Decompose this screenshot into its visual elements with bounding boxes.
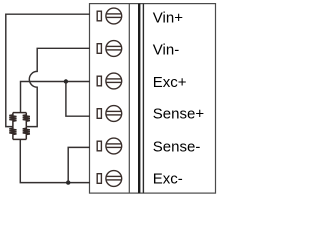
wire Vin- with hop over Exc+ wire : terminal 2 to bridge right-middle node xyxy=(26,48,90,126)
terminal 6 (Exc-) screw xyxy=(97,171,122,187)
resistor R1 (upper left) xyxy=(9,113,16,127)
resistor R2 (upper right) xyxy=(23,113,30,127)
junction dot Sense- tap xyxy=(66,180,70,184)
svg-text:Vin+: Vin+ xyxy=(153,9,183,26)
terminal 5 (Sense-) screw xyxy=(97,138,122,154)
wire Exc+ : terminal 3 to bridge top node xyxy=(21,82,91,113)
terminal 2 (Vin-) screw xyxy=(97,41,122,57)
junction dot Sense+ tap xyxy=(64,79,68,83)
terminal 1 (Vin+) screw xyxy=(97,8,122,24)
wire Vin+ : terminal 1 to bridge left-middle node xyxy=(6,14,90,126)
wire Exc- : terminal 6 to bridge bottom node xyxy=(20,139,90,182)
wire Sense- : tap up then to terminal 5 xyxy=(68,147,90,182)
module outline xyxy=(90,4,216,194)
resistor R3 (lower left) xyxy=(9,127,16,140)
wire Sense+ : tap down then to terminal 4 xyxy=(66,82,90,117)
module rail thick line xyxy=(138,4,140,194)
svg-text:Sense+: Sense+ xyxy=(153,106,205,123)
terminal 3 (Exc+) screw xyxy=(97,73,122,89)
resistor R4 (lower right) xyxy=(23,127,30,140)
terminal 4 (Sense+) screw xyxy=(97,106,122,122)
bridge top bar xyxy=(13,112,26,114)
svg-text:Exc+: Exc+ xyxy=(153,74,187,91)
module inner panel line xyxy=(128,4,130,194)
module rail thin line xyxy=(142,4,144,194)
bridge bottom bar xyxy=(13,138,26,140)
svg-text:Vin-: Vin- xyxy=(153,42,179,59)
svg-text:Exc-: Exc- xyxy=(153,171,183,188)
svg-text:Sense-: Sense- xyxy=(153,139,201,156)
